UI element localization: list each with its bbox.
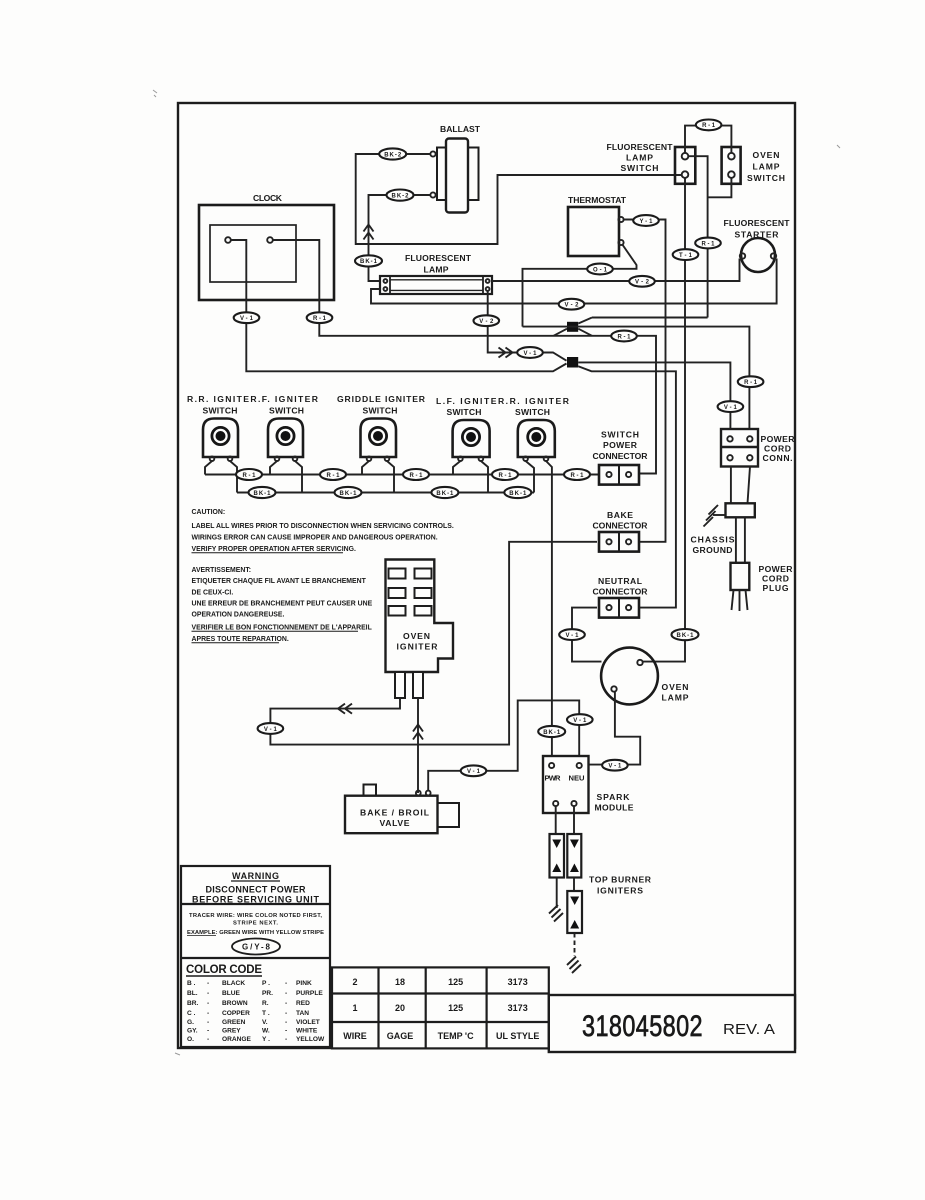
svg-text:T-1: T-1 — [679, 253, 693, 259]
svg-text:VIOLET: VIOLET — [296, 1019, 320, 1026]
wire oven lamp bottom pin to spark module NEU (V-1) — [582, 692, 640, 765]
wire label Y-1 — [633, 215, 659, 226]
color code legend — [186, 964, 325, 1043]
svg-text:BK-1: BK-1 — [677, 633, 695, 639]
wire ballast top pin loop to fluorescent lamp switch — [356, 154, 681, 244]
svg-text:FLUORESCENT: FLUORESCENT — [405, 253, 472, 263]
svg-text:MODULE: MODULE — [595, 803, 634, 813]
svg-text:WIRINGS ERROR CAN CAUSE IMPROP: WIRINGS ERROR CAN CAUSE IMPROPER AND DAN… — [192, 534, 438, 541]
wire label T-1 — [673, 249, 699, 260]
svg-text:PR.: PR. — [262, 990, 273, 997]
wire label V-2 — [629, 276, 655, 287]
svg-text:V-1: V-1 — [724, 405, 738, 411]
svg-text:SWITCH: SWITCH — [447, 407, 482, 417]
wire thermostat bottom pin to junction J1 (O-1 net) — [523, 244, 637, 327]
wire label V-1 — [567, 714, 593, 725]
wire thermostat top pin to bake connector (Y-1 net) — [624, 220, 666, 542]
svg-text:SPARK: SPARK — [597, 792, 631, 802]
oven lamp switch — [722, 147, 785, 184]
wire J2 to power cord conn (V-1) — [578, 362, 730, 429]
wire R-1 bridge between lamp switch tops — [685, 126, 731, 153]
ground (igniter 1) — [549, 905, 563, 922]
svg-text:PLUG: PLUG — [763, 583, 789, 593]
svg-text:BEFORE SERVICING UNIT: BEFORE SERVICING UNIT — [192, 895, 320, 905]
svg-text:V-1: V-1 — [573, 718, 587, 724]
svg-text:LAMP: LAMP — [424, 265, 449, 275]
svg-text:-: - — [207, 1000, 209, 1007]
svg-text:ORANGE: ORANGE — [222, 1036, 252, 1043]
wire label R-1 — [611, 331, 637, 342]
svg-text:-: - — [285, 1036, 287, 1043]
svg-text:IGNITER: IGNITER — [397, 642, 439, 652]
wire label R-1 — [738, 376, 764, 387]
svg-text:VERIFY PROPER OPERATION AFTER: VERIFY PROPER OPERATION AFTER SERVICING. — [192, 546, 356, 553]
svg-text:IGNITERS: IGNITERS — [597, 886, 643, 896]
part number box — [549, 995, 795, 1052]
svg-text:-: - — [207, 980, 209, 987]
switch SW1 R.R. igniter switch — [203, 419, 238, 462]
wire label V-1 — [559, 629, 585, 640]
node junction J1 — [567, 322, 578, 332]
power cord — [736, 517, 745, 563]
svg-text:TRACER WIRE: WIRE COLOR NOTED: TRACER WIRE: WIRE COLOR NOTED FIRST, — [189, 913, 322, 919]
wire label BK-1 — [538, 726, 565, 737]
svg-text:OVEN: OVEN — [403, 631, 430, 641]
svg-text:R-1: R-1 — [618, 334, 632, 340]
svg-text:R-1: R-1 — [499, 473, 513, 479]
svg-text:VALVE: VALVE — [380, 818, 410, 828]
svg-text:LABEL ALL WIRES PRIOR TO DISCO: LABEL ALL WIRES PRIOR TO DISCONNECTION W… — [192, 523, 454, 530]
oven igniter — [386, 560, 454, 699]
wire label O-1 — [587, 264, 613, 275]
wire J1 horizontal O-1 loop line through junction to power cord conn R-1 — [523, 327, 750, 429]
svg-text:COPPER: COPPER — [222, 1010, 250, 1017]
wire label V-1 — [718, 401, 744, 412]
svg-text:V.: V. — [262, 1019, 268, 1026]
wire R-1 bus to switch power connector — [205, 474, 599, 476]
svg-text:R-1: R-1 — [702, 123, 716, 129]
wire SW1 pins to buses — [205, 461, 237, 493]
fluorescent lamp switch — [607, 142, 696, 184]
svg-text:318045802: 318045802 — [582, 1010, 703, 1043]
svg-text:G/Y-8: G/Y-8 — [242, 943, 271, 952]
svg-text:CONN.: CONN. — [763, 453, 793, 463]
wire label V-1 — [234, 312, 260, 323]
svg-text:V-1: V-1 — [467, 769, 481, 775]
svg-text:SWITCH: SWITCH — [269, 406, 304, 416]
wire label V-1 — [461, 765, 487, 776]
svg-text:TAN: TAN — [296, 1010, 309, 1017]
wire igniter 2 to igniter 3 — [573, 878, 575, 892]
svg-text:R.: R. — [262, 1000, 269, 1007]
svg-text:V-1: V-1 — [524, 351, 538, 357]
wire oven lamp switch bottom pin to x707 node — [708, 178, 732, 198]
wire J2 diagonal to neutral connector line — [578, 366, 676, 607]
svg-text:LAMP: LAMP — [626, 153, 653, 163]
svg-text:R-1: R-1 — [571, 473, 585, 479]
svg-text:GRIDDLE IGNITER: GRIDDLE IGNITER — [337, 394, 426, 404]
switch SW5 R.R. igniter switch (right) — [518, 420, 555, 461]
wire label R-1 — [307, 312, 333, 323]
svg-text:GREEN: GREEN — [222, 1019, 246, 1026]
svg-text:BL.: BL. — [187, 990, 198, 997]
clock — [199, 193, 334, 300]
strain relief — [726, 503, 755, 517]
svg-text:CONNECTOR: CONNECTOR — [593, 521, 649, 531]
wire spark module left pin to igniter 1 — [555, 806, 557, 834]
wire oven igniter right pin to bake/broil valve — [417, 698, 419, 793]
top burner igniter 3 — [567, 891, 582, 933]
wire SW2 pins to buses — [270, 461, 302, 493]
svg-text:V-1: V-1 — [608, 764, 622, 770]
svg-text:BK-1: BK-1 — [509, 491, 527, 497]
svg-text:V-2: V-2 — [635, 280, 650, 286]
svg-text:R-1: R-1 — [744, 380, 758, 386]
svg-text:SWITCH: SWITCH — [621, 163, 659, 173]
wire power cord conn to strain relief — [731, 467, 750, 504]
wire label BK-1 — [672, 629, 699, 640]
svg-text:-: - — [285, 1028, 287, 1035]
wire clock right pin to switch power connector (R-1 net) — [273, 240, 656, 474]
svg-text:-: - — [285, 990, 287, 997]
arrow chevrons up on BK wire — [364, 225, 374, 240]
svg-text:SWITCH: SWITCH — [203, 406, 238, 416]
svg-text:GROUND: GROUND — [693, 545, 733, 555]
svg-text:LAMP: LAMP — [753, 162, 780, 172]
wire SW4 pins to buses — [453, 461, 488, 493]
svg-text:P .: P . — [262, 980, 270, 987]
svg-text:BAKE / BROIL: BAKE / BROIL — [360, 808, 429, 818]
svg-text:V-2: V-2 — [565, 303, 580, 309]
wire fluorescent lamp switch top pin down through R-1 to J1 line — [688, 156, 708, 317]
wire spark module right pin to igniter 2 — [573, 806, 575, 834]
svg-text:BK-1: BK-1 — [340, 491, 358, 497]
svg-text:SWITCH: SWITCH — [601, 430, 639, 440]
svg-text:125: 125 — [448, 977, 463, 987]
svg-text:T .: T . — [262, 1010, 270, 1017]
svg-text:OVEN: OVEN — [662, 682, 689, 692]
svg-text:NEUTRAL: NEUTRAL — [598, 576, 642, 586]
svg-text:COLOR CODE: COLOR CODE — [186, 964, 262, 976]
svg-text:FLUORESCENT: FLUORESCENT — [607, 142, 674, 152]
svg-text:TOP BURNER: TOP BURNER — [589, 875, 652, 885]
svg-text:LAMP: LAMP — [662, 693, 689, 703]
arrow chevrons up on valve wire — [413, 725, 423, 740]
svg-text:OVEN: OVEN — [753, 150, 780, 160]
svg-text:C .: C . — [187, 1010, 196, 1017]
power cord plug — [731, 563, 794, 611]
svg-text:-: - — [207, 1028, 209, 1035]
svg-text:L.F. IGNITER.R. IGNITER: L.F. IGNITER.R. IGNITER — [436, 396, 570, 406]
wire lamp right-bottom pin down to junction J2 (V-1/V-2) — [488, 292, 567, 361]
ballast — [430, 124, 480, 213]
switch SW4 L.F. igniter switch — [453, 420, 490, 461]
wire label V-1 — [258, 723, 284, 734]
wire label V-2 — [474, 315, 500, 326]
switch SW2 F. igniter switch — [268, 419, 303, 462]
svg-text:POWER: POWER — [759, 564, 794, 574]
svg-text:R-1: R-1 — [327, 473, 341, 479]
svg-text:WIRE: WIRE — [343, 1031, 367, 1041]
svg-text:BK-2: BK-2 — [392, 193, 410, 199]
svg-text:GREY: GREY — [222, 1028, 241, 1035]
svg-text:BK-2: BK-2 — [384, 152, 402, 158]
svg-text:Y .: Y . — [262, 1036, 270, 1043]
wire label R-1 — [695, 238, 721, 249]
svg-text:-: - — [207, 990, 209, 997]
svg-text:3173: 3173 — [508, 1003, 528, 1013]
warning box — [181, 866, 330, 1047]
wire SW5 left pin to BK-1 bus end — [526, 461, 534, 493]
arrow chevrons left on wire — [338, 704, 352, 714]
svg-text:R-1: R-1 — [313, 316, 327, 322]
svg-text:O.: O. — [187, 1036, 194, 1043]
svg-text:-: - — [285, 1019, 287, 1026]
svg-text:CORD: CORD — [764, 444, 791, 454]
wire clock left pin to junction J2 (V-1 net) — [231, 240, 567, 371]
wire SW5 right pin down to spark module PWR — [546, 461, 552, 766]
chassis ground symbol — [704, 505, 719, 527]
svg-text:OPERATION DANGEREUSE.: OPERATION DANGEREUSE. — [192, 611, 285, 618]
svg-text:CAUTION:: CAUTION: — [192, 509, 226, 516]
svg-text:BR.: BR. — [187, 1000, 199, 1007]
svg-text:BK-1: BK-1 — [543, 730, 561, 736]
svg-text:R.R. IGNITER.F. IGNITER: R.R. IGNITER.F. IGNITER — [187, 394, 319, 404]
svg-text:CORD: CORD — [762, 574, 789, 584]
bake connector — [593, 510, 649, 552]
svg-text:PINK: PINK — [296, 980, 312, 987]
svg-text:SWITCH: SWITCH — [747, 173, 785, 183]
svg-text:POWER: POWER — [603, 440, 638, 450]
wire label V-2 — [559, 299, 585, 310]
wire chassis ground stub — [713, 514, 726, 516]
switch SW3 griddle igniter switch — [361, 419, 397, 462]
svg-text:V-1: V-1 — [566, 633, 580, 639]
svg-text:BLACK: BLACK — [222, 980, 245, 987]
svg-text:V-1: V-1 — [264, 727, 278, 733]
svg-text:NEU: NEU — [569, 774, 586, 783]
neutral connector — [593, 576, 649, 618]
svg-text:GY.: GY. — [187, 1028, 198, 1035]
svg-text:APRES TOUTE REPARATION.: APRES TOUTE REPARATION. — [192, 636, 289, 643]
svg-text:UL STYLE: UL STYLE — [496, 1031, 539, 1041]
bake / broil valve — [345, 785, 459, 834]
svg-text:1: 1 — [352, 1003, 357, 1013]
svg-text:B .: B . — [187, 980, 196, 987]
svg-text:CHASSIS: CHASSIS — [691, 535, 735, 545]
caution note text — [192, 509, 454, 643]
spark module — [543, 756, 634, 813]
arrow chevrons right on V-1 wire — [499, 348, 513, 358]
svg-text:BAKE: BAKE — [607, 510, 633, 520]
svg-text:-: - — [207, 1036, 209, 1043]
power cord conn — [721, 429, 795, 467]
svg-text:BALLAST: BALLAST — [440, 124, 481, 134]
fluorescent starter — [724, 218, 791, 272]
thermostat — [568, 195, 627, 256]
svg-text:SWITCH: SWITCH — [363, 406, 398, 416]
fluorescent lamp — [380, 253, 492, 294]
wire fluorescent lamp switch bottom pin down T-1/BK-1 to oven lamp — [642, 178, 685, 662]
svg-text:STRIPE NEXT.: STRIPE NEXT. — [233, 921, 278, 927]
svg-text:20: 20 — [395, 1003, 405, 1013]
svg-text:V-1: V-1 — [240, 316, 254, 322]
svg-text:WHITE: WHITE — [296, 1028, 318, 1035]
svg-text:RED: RED — [296, 1000, 310, 1007]
wire J1 diagonals — [554, 318, 593, 336]
svg-text:GAGE: GAGE — [387, 1031, 414, 1041]
wire SW3 pins to buses — [362, 461, 394, 493]
svg-text:O-1: O-1 — [593, 267, 608, 273]
svg-text:AVERTISSEMENT:: AVERTISSEMENT: — [192, 567, 252, 574]
svg-text:-: - — [207, 1019, 209, 1026]
svg-text:DISCONNECT POWER: DISCONNECT POWER — [206, 885, 307, 895]
svg-text:R-1: R-1 — [243, 473, 257, 479]
top burner igniter 2 — [567, 834, 581, 878]
svg-text:UNE ERREUR DE BRANCHEMENT PEUT: UNE ERREUR DE BRANCHEMENT PEUT CAUSER UN… — [192, 601, 373, 608]
svg-text:BROWN: BROWN — [222, 1000, 248, 1007]
svg-text:BK-1: BK-1 — [360, 259, 378, 265]
node junction J2 — [567, 357, 578, 368]
svg-text:18: 18 — [395, 977, 405, 987]
svg-text:DE CEUX-CI.: DE CEUX-CI. — [192, 589, 234, 596]
wire label BK-1 — [355, 255, 382, 266]
svg-text:BLUE: BLUE — [222, 990, 241, 997]
svg-text:R-1: R-1 — [702, 241, 716, 247]
svg-text:VERIFIER LE BON FONCTIONNEMENT: VERIFIER LE BON FONCTIONNEMENT DE L'APPA… — [192, 624, 372, 631]
svg-text:CONNECTOR: CONNECTOR — [593, 587, 649, 597]
svg-text:WARNING: WARNING — [232, 871, 279, 881]
svg-text:PURPLE: PURPLE — [296, 990, 323, 997]
wire igniter 3 to chassis ground (dashed) — [574, 933, 576, 956]
svg-text:V-2: V-2 — [479, 319, 494, 325]
wire oven igniter left pin to bake connector (V-1 loop) — [270, 542, 597, 745]
ground (igniter 3) — [567, 957, 581, 974]
wire label BK-1 (bus) — [249, 487, 276, 498]
wire label BK-2 — [379, 148, 406, 159]
svg-text:-: - — [285, 1010, 287, 1017]
switch power connector — [593, 430, 649, 485]
top burner igniter 1 — [550, 834, 565, 878]
wire ballast bottom pin to fluorescent lamp left cap — [369, 195, 431, 281]
svg-text:Y-1: Y-1 — [640, 219, 654, 225]
wire label R-1 — [696, 120, 722, 131]
wire gauge table — [332, 967, 549, 1048]
svg-text:YELLOW: YELLOW — [296, 1036, 325, 1043]
wire label V-1 — [517, 347, 543, 358]
svg-text:REV. A: REV. A — [723, 1022, 775, 1038]
wire lamp right-top pin to fluorescent starter left pin (V-2 net) — [492, 259, 740, 282]
wire neutral connector left to oven lamp (V-1) — [572, 608, 602, 662]
svg-text:THERMOSTAT: THERMOSTAT — [568, 195, 627, 205]
wire valve right pin to spark module NEU (V-1) — [428, 700, 579, 790]
svg-text:FLUORESCENT: FLUORESCENT — [724, 218, 791, 228]
svg-text:-: - — [285, 1000, 287, 1007]
svg-text:W.: W. — [262, 1028, 270, 1035]
svg-text:PWR: PWR — [545, 774, 562, 783]
wire igniter 1 to chassis ground — [556, 878, 558, 909]
svg-text:CLOCK: CLOCK — [253, 193, 283, 203]
svg-text:BK-1: BK-1 — [436, 491, 454, 497]
wire label R-1 (bus) — [236, 469, 262, 480]
oven lamp — [601, 648, 689, 705]
svg-text:BK-1: BK-1 — [254, 491, 272, 497]
wire label V-1 — [602, 760, 628, 771]
svg-text:R-1: R-1 — [410, 473, 424, 479]
svg-text:-: - — [207, 1010, 209, 1017]
svg-text:SWITCH: SWITCH — [515, 407, 550, 417]
svg-text:CONNECTOR: CONNECTOR — [593, 451, 649, 461]
svg-text:125: 125 — [448, 1003, 463, 1013]
wire lamp bottom-left to fluorescent starter right pin (V-2 net) — [371, 259, 777, 304]
svg-text:2: 2 — [352, 977, 357, 987]
svg-text:-: - — [285, 980, 287, 987]
wire label BK-2 — [387, 190, 414, 201]
svg-text:G.: G. — [187, 1019, 194, 1026]
svg-text:POWER: POWER — [761, 434, 796, 444]
wire BK-1 bus — [237, 492, 534, 494]
svg-text:TEMP 'C: TEMP 'C — [438, 1031, 474, 1041]
svg-text:3173: 3173 — [508, 977, 528, 987]
svg-text:ETIQUETER CHAQUE FIL AVANT LE: ETIQUETER CHAQUE FIL AVANT LE BRANCHEMEN… — [192, 578, 367, 585]
wire J1 to oven lamp switch net (y317) — [592, 317, 708, 319]
